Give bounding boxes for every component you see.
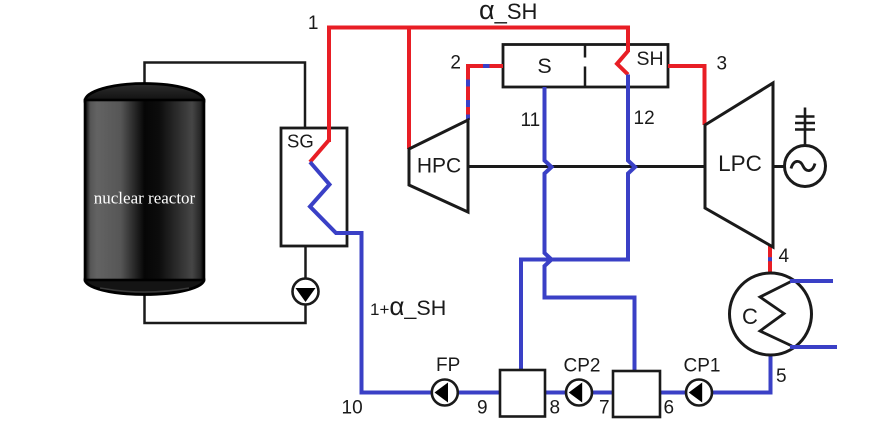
svg-text:LPC: LPC [718,151,762,176]
svg-text:11: 11 [521,110,541,131]
turbine HPC [409,120,468,212]
pump CP2 [566,380,592,406]
svg-text:7: 7 [599,398,610,419]
svg-text:HPC: HPC [417,155,461,178]
wire primary pump to SG bottom [304,246,307,279]
svg-text:1+α_SH: 1+α_SH [370,291,446,321]
wire 2 HPC exhaust to S [468,66,503,120]
svg-text:SH: SH [636,48,663,70]
svg-text:α_SH: α_SH [479,0,537,25]
wire steam branch to HPC inlet [407,29,411,149]
wire primary cold leg (reactor bottom to primary pump) [145,290,306,323]
nuclear reactor vessel [85,84,204,295]
svg-text:8: 8 [550,398,561,419]
svg-text:9: 9 [477,398,488,419]
heater HX1 (between 8 and 9) [500,370,545,417]
blue coil inside SG and feedwater line 10 to condenser [310,162,771,393]
svg-text:C: C [742,304,758,329]
wire main steam line 1 (SG to top header to SH drop) [329,28,628,143]
red coil segment inside SG [310,140,329,162]
turbine LPC [705,83,773,247]
svg-text:S: S [537,54,551,78]
svg-text:12: 12 [634,108,655,129]
steam generator SG box [281,128,347,246]
svg-text:2: 2 [450,53,461,74]
svg-text:1: 1 [308,13,319,34]
svg-text:5: 5 [776,366,787,387]
wire cooling water outlet [790,345,837,349]
primary pump under SG [293,279,319,305]
wire primary hot leg (reactor top to SG top) [145,63,306,129]
condenser C [730,273,812,355]
separator/superheater box S-SH [503,45,668,88]
heater HX2 (between 6 and 7) [613,371,660,417]
svg-text:CP1: CP1 [684,356,721,377]
svg-text:3: 3 [717,54,728,75]
svg-text:6: 6 [664,398,675,419]
grid connection symbol [804,108,807,146]
svg-text:nuclear reactor: nuclear reactor [94,189,196,208]
pump FP [432,380,458,406]
pump CP1 [686,380,712,406]
shaft LPC to generator [773,165,785,168]
svg-text:CP2: CP2 [564,356,601,377]
wire cooling water inlet [790,279,833,283]
svg-text:FP: FP [436,355,460,376]
svg-text:SG: SG [287,131,314,152]
wire 11 S drain to high-pressure heater (with crossover hops) [545,87,635,372]
wire 3 SH to LPC inlet [668,66,705,125]
wire 4 LPC exhaust to condenser [768,245,772,274]
svg-text:4: 4 [779,246,790,267]
turbine shaft [468,165,705,168]
svg-text:10: 10 [342,398,363,419]
wet steam dashes on wire 2 [468,66,490,120]
wire 12 SH drain to low-pressure heater [521,75,635,372]
red coil inside SH [617,51,628,75]
wet steam dash on wire 4 [768,257,772,261]
generator G [785,108,826,187]
